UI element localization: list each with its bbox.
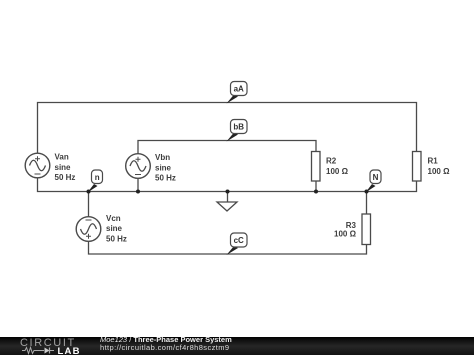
voltage source Van xyxy=(25,153,50,178)
node flag cC xyxy=(227,233,248,255)
wire Vcn bottom to phase c xyxy=(89,242,367,255)
svg-text:Vbn: Vbn xyxy=(155,153,170,162)
svg-text:100 Ω: 100 Ω xyxy=(334,230,357,239)
wire top horizontal (phase a) xyxy=(38,103,417,154)
title text xyxy=(100,335,232,344)
svg-text:n: n xyxy=(95,173,100,182)
wire phase b horizontal xyxy=(138,141,316,154)
resistor R3 xyxy=(362,214,371,245)
junction Vbn bottom xyxy=(136,190,140,194)
svg-text:50 Hz: 50 Hz xyxy=(55,173,76,182)
voltage source Vcn xyxy=(76,217,101,242)
node flag bB xyxy=(227,120,248,142)
svg-text:bB: bB xyxy=(233,123,244,132)
resistor R2 xyxy=(312,152,321,182)
svg-text:50 Hz: 50 Hz xyxy=(155,174,176,183)
node flag N xyxy=(366,170,382,193)
svg-text:50 Hz: 50 Hz xyxy=(106,234,127,243)
label R3 value xyxy=(334,221,357,239)
node flag n xyxy=(88,170,103,193)
svg-text:N: N xyxy=(373,173,379,182)
svg-text:R3: R3 xyxy=(346,221,357,230)
wire Vcn top xyxy=(88,192,90,217)
label Vcn value xyxy=(106,214,127,244)
svg-text:R1: R1 xyxy=(428,157,439,166)
label Van value xyxy=(55,153,76,183)
junction n xyxy=(87,190,91,194)
node flag aA xyxy=(227,82,248,104)
svg-text:Vcn: Vcn xyxy=(106,214,121,223)
wire R2 bottom xyxy=(315,181,317,192)
svg-text:100 Ω: 100 Ω xyxy=(326,167,349,176)
voltage source Vbn xyxy=(126,154,151,179)
svg-text:aA: aA xyxy=(234,85,244,94)
resistor R1 xyxy=(413,152,422,182)
junction ground xyxy=(226,190,230,194)
label R2 value xyxy=(326,157,349,177)
svg-text:sine: sine xyxy=(55,163,72,172)
label R1 value xyxy=(428,157,451,177)
wire R3 top xyxy=(366,192,368,215)
footer bar xyxy=(0,337,474,355)
svg-text:R2: R2 xyxy=(326,157,337,166)
junction R2 bottom xyxy=(314,190,318,194)
CircuitLab logo xyxy=(20,337,90,355)
svg-text:100 Ω: 100 Ω xyxy=(428,167,451,176)
svg-text:cC: cC xyxy=(234,236,244,245)
url text xyxy=(100,343,229,352)
ground xyxy=(217,192,237,212)
svg-text:LAB: LAB xyxy=(58,346,81,355)
wire Vbn bottom xyxy=(137,179,139,192)
svg-text:Van: Van xyxy=(55,153,69,162)
wire neutral horizontal xyxy=(38,178,417,192)
label Vbn value xyxy=(155,153,176,183)
svg-text:sine: sine xyxy=(155,164,172,173)
svg-text:sine: sine xyxy=(106,224,123,233)
junction N xyxy=(365,190,369,194)
